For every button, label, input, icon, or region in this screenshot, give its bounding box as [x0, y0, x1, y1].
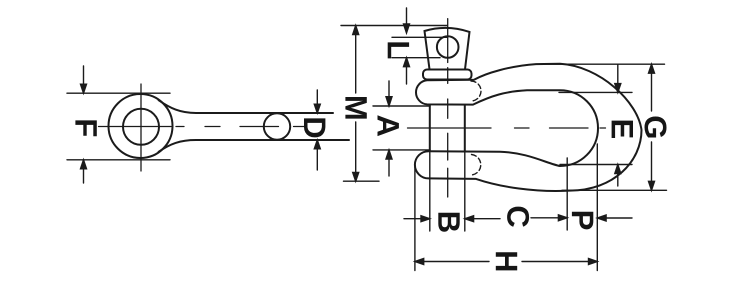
dim M extension bottom [344, 180, 380, 182]
hidden thread arc top ear [471, 81, 481, 101]
dim E bottom arrow [615, 165, 621, 187]
label E [612, 121, 633, 138]
label D [304, 118, 325, 137]
hidden thread arc bottom ear [472, 155, 481, 176]
pin horizontal centerline [99, 126, 305, 128]
dim A extension top [373, 105, 430, 107]
dim L extension mid [392, 36, 447, 38]
dim L extension bottom [392, 57, 440, 59]
pin side right in jaw [464, 106, 466, 151]
dim D top arrow [314, 90, 320, 113]
pin eye vertical centerline [140, 84, 142, 171]
dim C right line and arrow [531, 215, 567, 221]
shackle pin centerline [447, 19, 449, 197]
shackle horizontal centerline [408, 127, 606, 129]
pin eye outer circle [109, 94, 173, 158]
label B [438, 213, 459, 232]
label H [496, 252, 517, 270]
pin hole circle D [264, 113, 290, 139]
dim A top arrow [386, 81, 392, 106]
pin shank top edge [159, 100, 333, 113]
shackle pin head hole [437, 36, 459, 58]
dim P right arrow [597, 215, 632, 221]
dim P left extension [566, 158, 568, 230]
dim G top arrow [649, 64, 655, 111]
dim G extension top [542, 63, 665, 65]
dim G extension bottom [562, 189, 667, 191]
shackle pin head [425, 28, 470, 69]
dim G bottom arrow [649, 142, 655, 190]
dim M extension top [341, 25, 447, 27]
dim F extension line bottom [67, 159, 170, 161]
pin side left extension (B) [429, 151, 431, 232]
dim B right arrow / C left arrow [465, 216, 500, 222]
label A [378, 115, 399, 136]
dim H left arrow [415, 259, 489, 265]
pin side right extension (B) [464, 151, 466, 232]
dim L top arrow [404, 8, 410, 33]
label F [75, 120, 96, 136]
shackle body outline [415, 64, 642, 191]
dim F top arrow [81, 66, 87, 93]
dim E top arrow [615, 64, 621, 92]
pin eye hole [123, 109, 159, 145]
label C [507, 207, 529, 227]
dim H left extension [414, 165, 416, 271]
label G [645, 117, 667, 138]
dim H right arrow [522, 259, 597, 265]
pin side left in jaw [429, 106, 431, 151]
dim D bottom arrow [314, 140, 320, 170]
dim F extension line top [67, 92, 170, 94]
dim M line top arrow [353, 26, 359, 94]
dim B left arrow [404, 216, 430, 222]
pin shank bottom edge [159, 140, 349, 152]
dim E extension bottom [560, 164, 632, 166]
shackle pin collar [423, 70, 472, 80]
dim H right extension [596, 144, 598, 271]
label M [345, 97, 366, 119]
dim F bottom arrow [81, 160, 87, 183]
label L [388, 42, 409, 58]
dim L bottom arrow [404, 58, 410, 84]
dim A extension bottom [373, 149, 430, 151]
dim E extension top [559, 91, 632, 93]
dim M line bottom arrow [353, 122, 359, 181]
label P [572, 212, 593, 230]
dim A bottom arrow [386, 150, 392, 176]
